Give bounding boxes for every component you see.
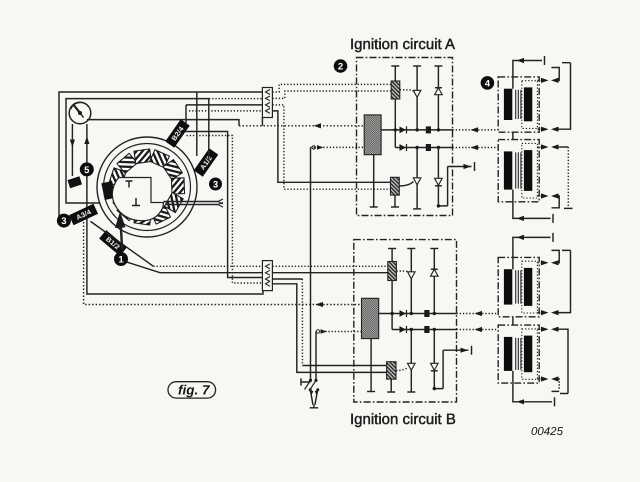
ignition coil U1 secondary outline — [522, 81, 538, 129]
capacitor C4 rail B2 — [424, 326, 429, 333]
callout badge 2 — [334, 59, 348, 73]
ignition coil U2 core — [516, 152, 521, 188]
lower connector pins — [266, 264, 271, 287]
terminal label B2/4 — [165, 119, 189, 147]
charging coil B ground lead — [370, 339, 372, 392]
wire A1/2 to connector pin4 — [208, 99, 210, 161]
thyristor A1 — [413, 90, 421, 97]
rotor T mark 2 — [132, 198, 140, 206]
kill switch contacts — [309, 379, 312, 382]
column wire B1 — [410, 249, 412, 314]
ignition coil U4 secondary output top — [537, 328, 541, 330]
sender block under gauge — [68, 176, 83, 188]
svg-text:00425: 00425 — [531, 426, 564, 438]
output rail B2 — [392, 329, 456, 331]
stator outer circle — [97, 137, 197, 237]
wire lower pin3 to trigger coil B2 — [272, 278, 302, 280]
wire gauge left lead — [71, 124, 73, 176]
trigger coil B1 gate wire — [396, 271, 409, 274]
stator output socket arrows — [218, 199, 223, 207]
ignition coil U1 primary winding — [504, 89, 512, 120]
column wire A1 — [416, 66, 418, 130]
wire upper pin4 to trigger coil A2 — [272, 111, 390, 182]
node rail B2 / diode column — [433, 328, 436, 331]
capacitor C2 rail A2 — [426, 144, 431, 151]
ignition coil U3 secondary output top — [537, 262, 541, 264]
terminal stubs box A top — [391, 65, 399, 67]
diode D2 rail A2 — [400, 144, 406, 151]
gauge (tachometer) — [69, 102, 91, 124]
svg-text:5: 5 — [84, 165, 90, 176]
wire B2/4 to lower connector pin3 — [185, 132, 263, 278]
ignition coil U3 secondary outline — [522, 261, 538, 313]
svg-text:2: 2 — [338, 61, 343, 72]
node rail A1 / coil junction — [394, 128, 397, 131]
trigger coil A2 ground — [394, 195, 396, 207]
thyristor B2 — [408, 363, 416, 370]
callout badge 4 — [481, 76, 495, 90]
ignition coil U3 secondary output bottom — [537, 312, 541, 314]
wire gauge right lead down to bottom connector — [87, 124, 263, 294]
node diode column A bottom — [437, 204, 440, 207]
link wire coils U1-U2 — [512, 132, 514, 139]
fig. 7 label oval — [168, 382, 216, 398]
wire lower pin4 to trigger coil B2 — [272, 284, 386, 373]
ignition coil U2 primary winding — [504, 151, 512, 189]
plug lead hook U2 bottom — [552, 196, 560, 208]
trigger coil A2 gate wire — [399, 182, 413, 187]
column wire B2 lower — [410, 330, 412, 393]
plug rail top pair — [559, 63, 571, 130]
callout arrow 1 — [121, 226, 122, 250]
terminal stubs box B top — [388, 248, 396, 250]
node rail A1 / diode column — [437, 128, 440, 131]
ignition coil U2 secondary winding — [524, 150, 532, 191]
output rail B1 — [379, 313, 457, 315]
ignition coil U3 secondary winding — [524, 268, 532, 306]
ignition coil U1 secondary winding — [524, 87, 532, 121]
charging coil B — [362, 298, 379, 338]
plug lead hook U3 top — [552, 250, 560, 262]
node rail B1 / thyristor column — [410, 312, 413, 315]
ignition coil U1 box — [498, 77, 539, 132]
diode D1 rail A1 — [400, 127, 406, 134]
stator inner ring circle — [104, 144, 191, 231]
node rail B1 / diode column — [433, 312, 436, 315]
ignition coil U4 secondary output bottom — [537, 378, 541, 380]
svg-text:Ignition circuit A: Ignition circuit A — [350, 36, 455, 53]
output rail A1 — [381, 129, 452, 131]
wire upper pin2 to trigger coil A1 (dotted) — [272, 91, 391, 98]
diode column B lower — [434, 330, 443, 389]
ignition coil U4 secondary outline — [522, 329, 538, 379]
plug lead hook U4 bottom — [558, 379, 561, 389]
ignition circuit A box — [357, 58, 453, 216]
shield wire to upper connector body — [261, 117, 263, 125]
spark gap funnel to ground — [310, 389, 318, 408]
ignition coil U2 secondary outline — [522, 143, 538, 198]
wire A3/4 to connector pin2 (left rect inner) — [66, 99, 209, 203]
rotor centre polygon — [112, 178, 163, 221]
upper connector pins — [266, 90, 271, 114]
terminal label A3/4 — [69, 204, 98, 225]
wire upper pin3 to trigger coil A2 (dotted vertical) — [272, 105, 390, 189]
ignition coil U3 HT lead — [513, 233, 553, 269]
trigger coil A1 return wire — [394, 99, 396, 148]
svg-text:3: 3 — [213, 179, 218, 190]
diode D3 rail B1 — [400, 310, 406, 317]
node rail A2 / diode column — [437, 146, 440, 149]
terminal label B1/2 — [99, 230, 127, 256]
thyristor B1 — [408, 272, 416, 279]
ignition coil U4 HT lead — [513, 371, 555, 406]
node rail B1 / coil junction — [390, 312, 393, 315]
plug rail bottom pair — [559, 250, 571, 312]
ignition coil U2 secondary output top — [537, 146, 541, 148]
ignition coil U4 secondary winding — [524, 336, 532, 373]
node rail A1 / thyristor column — [415, 128, 418, 131]
ignition coil U4 box — [498, 325, 539, 383]
column wire A2 lower — [416, 148, 418, 209]
wire lower pin2 to trigger coil B1 — [272, 272, 388, 274]
link wire coils U3-U4 — [512, 317, 514, 325]
diode column A top — [437, 66, 439, 130]
stator magnet wedge 2 — [112, 195, 131, 215]
node rail A2 / thyristor column — [415, 146, 418, 149]
ignition coil U1 core — [516, 90, 521, 119]
wire upper pin1 to trigger coil A1 (dotted) — [272, 84, 391, 92]
trigger coil A2 — [391, 177, 400, 195]
output rail A2 — [395, 147, 452, 149]
charging coil A ground lead — [373, 155, 375, 207]
trigger coil B2 — [387, 362, 396, 379]
wire stator to upper pin4 (dotted) — [189, 110, 263, 112]
kill switch wire A (taps rail A2) — [311, 146, 365, 148]
wire lower pin1 to trigger coil B1 (dotted) — [272, 265, 388, 267]
wire A3/4 to connector pin1 (left rect outer) — [59, 92, 263, 219]
capacitor C3 rail B1 — [424, 310, 429, 317]
trigger coil B2 gate wire — [396, 367, 408, 371]
external terminal A — [448, 162, 475, 206]
diode D4 rail B2 — [400, 326, 406, 333]
callout badge 3 left — [57, 214, 71, 228]
callout badge 3 right — [209, 178, 222, 191]
trigger coil B1 — [391, 249, 393, 262]
ignition coil U2 secondary output bottom — [537, 195, 541, 197]
arrow on dashed wire B — [316, 302, 324, 307]
dashed wire to circuit A charging coil — [87, 120, 239, 126]
upper connector block — [262, 88, 272, 118]
callout badge 5 — [80, 162, 94, 176]
callout badge 1 — [114, 252, 128, 266]
trigger coil B1 return wire — [391, 281, 393, 330]
ignition coil U3 primary winding — [504, 269, 512, 304]
svg-text:4: 4 — [485, 78, 491, 89]
trigger coil B2 ground — [390, 379, 392, 392]
thyristor A2 — [413, 178, 421, 185]
svg-text:Ignition circuit B: Ignition circuit B — [350, 411, 456, 428]
ignition coil U4 primary winding — [504, 337, 512, 371]
ignition coil U2 box — [498, 140, 539, 202]
arrow down on gauge left lead — [70, 140, 75, 148]
kill switch ground terminal left — [301, 378, 311, 385]
terminal label A1/2 — [194, 148, 218, 176]
svg-text:1: 1 — [118, 254, 124, 265]
arrow on kill wire A — [312, 146, 315, 149]
lower connector block — [262, 261, 272, 291]
plug lead hook U1 top — [552, 68, 560, 81]
rotor T mark 1 — [126, 181, 133, 188]
ignition coil U3 core — [516, 270, 521, 303]
ignition coil U2 HT lead — [513, 190, 553, 223]
arrow on dashed wire A — [314, 123, 321, 128]
node rail B2 / thyristor column — [410, 328, 413, 331]
wire B2/4 to lower connector pin4 (dotted) — [187, 136, 263, 284]
wire A1/2 to connector pin3 — [196, 92, 198, 156]
svg-text:fig. 7: fig. 7 — [178, 382, 211, 397]
wire stator to upper pin3 — [186, 105, 263, 125]
stator output pair wires — [164, 202, 219, 205]
ignition coil U1 secondary output top — [537, 79, 541, 81]
diode column A lower — [438, 148, 447, 206]
arrow up on gauge right lead — [84, 137, 89, 145]
dashed wire to circuit B charging coil — [84, 222, 362, 305]
kill switch wire B (taps rail B2) — [322, 331, 362, 333]
svg-text:3: 3 — [61, 216, 66, 227]
stator coil segments — [109, 149, 185, 225]
diode column B top — [433, 249, 435, 314]
ignition coil U3 box — [498, 257, 539, 316]
node diode column B bottom — [433, 387, 436, 390]
capacitor C1 rail A1 — [426, 126, 431, 133]
ignition circuit B box — [354, 240, 457, 402]
ignition coil U1 secondary output bottom — [537, 128, 541, 130]
wire callout1 diagonal to lower connector pin2 (dotted) — [125, 262, 263, 273]
ignition coil U4 core — [516, 338, 521, 370]
ignition coil U1 HT lead — [513, 56, 545, 89]
charging coil A — [364, 115, 381, 155]
trigger coil A1 — [394, 66, 396, 81]
trigger coil A1 gate wire — [400, 90, 415, 93]
stator magnet wedge 1 — [101, 181, 115, 200]
external terminal B — [443, 346, 471, 389]
wire B1-2 diagonal to lower connector pin1 — [91, 221, 154, 266]
